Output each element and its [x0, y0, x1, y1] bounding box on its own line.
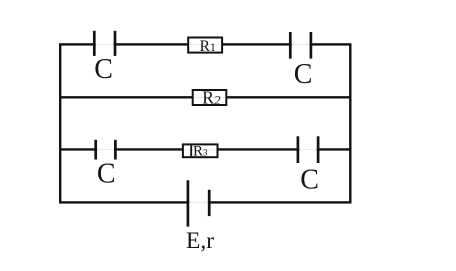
wire middle branch node [60, 96, 350, 98]
capacitor C bottom-left [96, 140, 116, 160]
svg-text:C: C [300, 165, 319, 196]
svg-text:E,r: E,r [186, 228, 214, 254]
svg-text:C: C [94, 54, 113, 85]
resistor R2 [193, 90, 227, 105]
wire third branch node [60, 148, 350, 150]
svg-text:C: C [97, 159, 116, 190]
resistor R3 [183, 144, 218, 157]
svg-text:C: C [294, 59, 313, 90]
battery E,r [188, 180, 209, 226]
resistor R1 [188, 38, 222, 53]
wire outer loop [60, 44, 350, 202]
stray plate mark inside R3 box [190, 145, 192, 156]
capacitor C top-left [94, 31, 115, 56]
capacitor C top-right [290, 32, 311, 59]
capacitor C bottom-right [298, 136, 318, 163]
